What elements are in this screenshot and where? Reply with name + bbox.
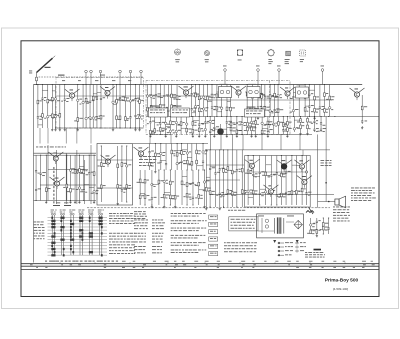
svg-text:[4-509-100]: [4-509-100] bbox=[333, 287, 349, 291]
svg-text:Prima-Boy 500: Prima-Boy 500 bbox=[325, 278, 359, 284]
